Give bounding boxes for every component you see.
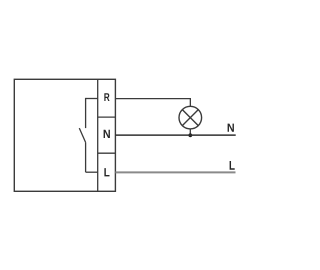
junction dot — [188, 133, 192, 137]
wire switch to L terminal (internal) — [86, 171, 98, 173]
terminal strip — [98, 79, 116, 191]
switch S1 blade — [79, 128, 85, 142]
wire R terminal to lamp — [115, 99, 190, 107]
terminal L label — [104, 168, 109, 176]
terminal N label — [104, 130, 110, 138]
lamp E1 — [179, 106, 202, 129]
node L label — [230, 161, 235, 170]
wire lamp to N line — [189, 129, 191, 135]
node N label — [228, 124, 234, 132]
wire switch lower lead — [85, 142, 87, 172]
terminal R label — [104, 93, 109, 101]
device box — [14, 79, 115, 191]
wire L terminal to L node — [115, 171, 235, 173]
wire R terminal to switch (internal) — [86, 98, 98, 100]
wire switch upper lead — [85, 98, 87, 128]
wire N terminal to N node — [115, 134, 235, 136]
